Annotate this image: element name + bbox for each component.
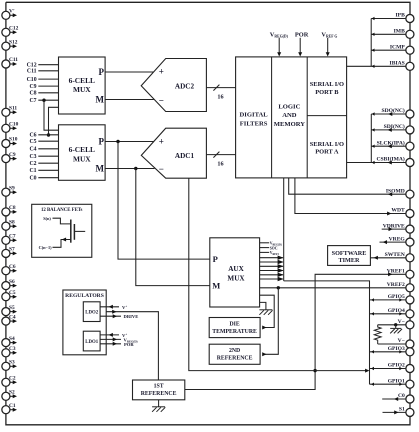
- svg-text:SWTEN: SWTEN: [385, 252, 405, 258]
- pin ISOMD (right terminal): [386, 188, 414, 198]
- wire SWTEN row: [370, 256, 406, 260]
- svg-text:FILTERS: FILTERS: [240, 121, 268, 128]
- junction dot node VREF2: [277, 286, 280, 289]
- svg-text:C1: C1: [30, 168, 37, 174]
- pin C4 (left terminal): [2, 314, 17, 325]
- svg-text:C4: C4: [30, 147, 37, 153]
- wire 2ND REFERENCE riser: [262, 288, 278, 357]
- svg-text:AND: AND: [282, 112, 297, 119]
- svg-text:P: P: [213, 254, 218, 264]
- wire GPIO2 row (bidirectional): [370, 367, 407, 370]
- svg-text:C0: C0: [30, 176, 37, 182]
- svg-text:P: P: [99, 137, 105, 147]
- mux2 input wire C6: [30, 133, 59, 139]
- block SOFTWARE TIMER: [328, 246, 371, 266]
- LDO1 V+ input row: [100, 332, 127, 338]
- svg-text:DIGITAL: DIGITAL: [240, 111, 269, 118]
- svg-text:POR: POR: [295, 31, 309, 38]
- svg-text:C10: C10: [9, 122, 19, 128]
- wire MUX2 P to ADC1 +: [105, 141, 154, 143]
- pin VDRIVE (right terminal): [383, 223, 414, 233]
- pin IMB (right terminal): [394, 29, 414, 39]
- svg-text:C0: C0: [398, 393, 405, 399]
- pin C9 (left terminal): [2, 152, 17, 163]
- pin GPIO1 (right terminal): [388, 378, 414, 388]
- svg-text:C4: C4: [9, 314, 16, 320]
- pin SWTEN (right terminal): [385, 252, 414, 262]
- wire IPB row: [371, 17, 406, 20]
- wire ADC2 output bus (16): [206, 85, 235, 101]
- svg-text:+: +: [159, 137, 164, 147]
- aux mux output V REF2 label row: [260, 251, 280, 256]
- wire CSBI(IMA) row from SERIAL PORT A: [347, 161, 406, 165]
- wire bus vertical (current sense group): [370, 19, 372, 67]
- svg-text:SOFTWARE: SOFTWARE: [332, 250, 367, 257]
- svg-text:M: M: [212, 281, 220, 291]
- aux mux output SOC label row: [260, 246, 278, 250]
- wire GPIO1 row (bidirectional): [370, 383, 407, 386]
- svg-text:+: +: [159, 67, 164, 77]
- pin CSBI(IMA) (right terminal): [377, 156, 414, 167]
- wire ADC1 bottom to GPIO bus: [189, 178, 370, 372]
- block REGULATORS: [63, 290, 106, 355]
- svg-text:C2: C2: [9, 376, 16, 382]
- aux mux output V REG label row: [260, 242, 282, 247]
- svg-text:16: 16: [217, 161, 223, 168]
- svg-text:LDO2: LDO2: [85, 311, 98, 316]
- pin GPIO3 (right terminal): [388, 346, 414, 356]
- wire ICMP row: [371, 49, 406, 52]
- svg-text:C(n−1): C(n−1): [39, 245, 53, 250]
- aux mux fan wire 5 into bus: [260, 273, 284, 277]
- mux2 input wire C2: [30, 161, 59, 167]
- LDO2 DRIVE output row: [100, 314, 138, 319]
- op-amp style block ADC1: [141, 128, 206, 178]
- svg-text:M: M: [96, 95, 105, 105]
- pin GPIO4 (right terminal): [388, 308, 414, 318]
- svg-text:GPIO3: GPIO3: [388, 346, 405, 352]
- svg-text:ADC1: ADC1: [175, 152, 195, 160]
- svg-text:C2: C2: [30, 161, 37, 167]
- svg-text:DIE: DIE: [229, 321, 239, 327]
- pin C3 (left terminal): [2, 346, 17, 357]
- svg-text:S11: S11: [9, 106, 17, 112]
- svg-text:VREG: VREG: [389, 236, 406, 242]
- wire MUX1 P to ADC2 +: [105, 71, 154, 73]
- svg-text:ICMP: ICMP: [390, 44, 405, 50]
- pin SDI(NC) (right terminal): [384, 123, 414, 134]
- ground hatch at V-: [390, 325, 402, 334]
- pin C6 (left terminal): [2, 264, 17, 275]
- svg-text:IBIAS: IBIAS: [390, 61, 405, 67]
- pin S4 (left terminal): [2, 336, 17, 347]
- junction dot on V- row: [394, 323, 397, 326]
- ground hatch below AUX MUX: [259, 302, 272, 314]
- svg-text:S12: S12: [9, 39, 18, 45]
- pin S12 (left terminal): [2, 39, 18, 50]
- svg-text:S3: S3: [9, 360, 15, 366]
- svg-text:C11: C11: [9, 57, 18, 63]
- junction dot on P line (node P): [116, 140, 119, 143]
- mux2 input wire C1: [30, 168, 59, 174]
- wire VDRIVE stub: [382, 227, 406, 231]
- pin GPIO2 (right terminal): [388, 363, 414, 373]
- svg-text:M: M: [96, 164, 105, 174]
- pin WDT (right terminal): [391, 208, 414, 218]
- svg-text:S10: S10: [9, 137, 18, 143]
- pin IPB (right terminal): [395, 13, 413, 23]
- wire MUX1 M to ADC2 -: [105, 99, 154, 101]
- svg-text:PORT A: PORT A: [315, 148, 339, 155]
- svg-text:C3: C3: [30, 154, 37, 160]
- wire WDT from logic box: [295, 178, 406, 216]
- wire ADC1 output bus (16): [206, 152, 235, 168]
- mux1 input wire C7: [30, 98, 59, 104]
- wire bus corner to GPIO bus: [284, 281, 370, 384]
- wire V- top row: [378, 324, 406, 326]
- wire IMB row: [371, 33, 406, 36]
- svg-text:C10: C10: [27, 77, 37, 83]
- svg-text:S6: S6: [9, 279, 15, 285]
- svg-text:C12: C12: [9, 26, 19, 32]
- svg-text:S7: S7: [9, 247, 15, 253]
- svg-text:S1: S1: [399, 407, 405, 413]
- pin VREG (right terminal): [389, 236, 414, 246]
- svg-text:S9: S9: [9, 185, 15, 191]
- svg-text:GPIO2: GPIO2: [388, 363, 405, 369]
- pin VREF2 (right terminal): [387, 282, 414, 292]
- wire C7 to MUX2 top input: [44, 100, 59, 130]
- svg-text:REFERENCE: REFERENCE: [217, 356, 253, 362]
- resistor R1 (V- to V-): [374, 325, 381, 344]
- pin C12 (left terminal): [2, 26, 19, 37]
- top input V REG(D) with arrow: [270, 31, 289, 56]
- svg-text:WDT: WDT: [391, 208, 405, 214]
- pin S8 (left terminal): [2, 219, 17, 230]
- svg-text:C5: C5: [9, 290, 16, 296]
- pin C0 (right terminal): [398, 393, 414, 403]
- wire S1 row: [383, 410, 407, 414]
- wire ADC1 P-line to AUX MUX P input: [118, 142, 210, 260]
- block U3 AUX MUX: [210, 238, 260, 307]
- svg-text:C9: C9: [30, 84, 37, 90]
- svg-text:VREF2: VREF2: [387, 282, 405, 288]
- svg-text:C7: C7: [9, 234, 16, 240]
- svg-text:S4: S4: [9, 336, 15, 342]
- svg-text:DRIVE: DRIVE: [124, 314, 139, 319]
- mux2 input wire C3: [30, 154, 59, 160]
- pin V- (right terminal): [398, 338, 414, 348]
- wire regulator to 1ST REFERENCE: [100, 310, 158, 380]
- svg-text:−: −: [159, 164, 164, 174]
- svg-text:1ST: 1ST: [154, 384, 164, 390]
- svg-text:MUX: MUX: [73, 85, 91, 94]
- svg-text:C12: C12: [27, 63, 37, 69]
- op-amp style block ADC2: [141, 59, 206, 112]
- mux1 input wire C11: [27, 69, 59, 75]
- svg-text:TIMER: TIMER: [339, 257, 361, 264]
- wire GPIO3 row (bidirectional): [370, 350, 407, 353]
- pin S7 (left terminal): [2, 247, 17, 258]
- pin C7 (left terminal): [2, 234, 17, 245]
- svg-text:IPB: IPB: [395, 13, 405, 19]
- svg-text:V−: V−: [398, 338, 405, 344]
- wire DIE TEMPERATURE riser: [260, 295, 275, 329]
- block DIE TEMPERATURE: [209, 318, 260, 338]
- svg-text:GPIO4: GPIO4: [388, 308, 405, 314]
- wire ISOMD from logic box: [289, 178, 406, 196]
- wire VREG stub: [380, 240, 407, 244]
- mux1 input wire C12: [27, 63, 59, 69]
- aux mux fan wire 4 into bus: [260, 268, 284, 272]
- pin ICMP (right terminal): [390, 44, 414, 54]
- svg-text:IMB: IMB: [394, 29, 405, 35]
- svg-text:16: 16: [217, 94, 223, 101]
- aux mux fan wire 6 into bus: [260, 277, 284, 281]
- svg-text:C7: C7: [30, 98, 37, 104]
- svg-text:PORT B: PORT B: [315, 89, 339, 96]
- pin SDO(NC) (right terminal): [381, 107, 413, 118]
- wire C6 to MUX1 bottom input: [49, 107, 59, 135]
- aux mux fan wire 3 into bus: [260, 264, 284, 268]
- wire VREF2 row from AUX MUX: [260, 287, 406, 289]
- pin S3 (left terminal): [2, 360, 17, 371]
- transistor Q1 balance FET in block 12 BALANCE FETs: [32, 204, 92, 257]
- pin S11 (left terminal): [2, 106, 18, 117]
- block 2ND REFERENCE: [209, 344, 260, 364]
- pin C10 (left terminal): [2, 122, 19, 133]
- svg-text:S5: S5: [9, 305, 15, 311]
- svg-text:S(n): S(n): [43, 216, 51, 221]
- svg-text:V−: V−: [398, 319, 405, 325]
- pin C11 (left terminal): [2, 57, 18, 68]
- wire MUX2 M to ADC1 -: [105, 168, 154, 170]
- pin IBIAS (right terminal): [390, 61, 414, 71]
- svg-text:SDO(NC): SDO(NC): [381, 107, 404, 114]
- top input POR with arrow: [295, 31, 309, 56]
- pin S2 (left terminal): [2, 390, 17, 401]
- junction dot node C7: [42, 99, 45, 102]
- pin V- (right terminal): [398, 319, 414, 329]
- svg-text:AUX: AUX: [228, 265, 244, 273]
- svg-text:S8: S8: [9, 219, 15, 225]
- block U1 6-CELL MUX (upper): [59, 57, 106, 114]
- pin S1 (right terminal): [399, 407, 414, 417]
- junction dot on GPIO2 feed line: [313, 369, 316, 372]
- svg-text:SOC: SOC: [270, 246, 278, 250]
- mux2 input wire C5: [30, 139, 59, 145]
- pin V+ (left terminal): [2, 8, 17, 19]
- pin GPIO5 (right terminal): [388, 294, 414, 304]
- svg-text:VDRIVE: VDRIVE: [383, 223, 405, 229]
- svg-text:GPIO5: GPIO5: [388, 294, 405, 300]
- wire SLCK(IPA) row: [371, 144, 406, 148]
- svg-text:C6: C6: [9, 264, 16, 270]
- wire GPIO4 row (bidirectional): [370, 312, 407, 315]
- svg-text:ADC2: ADC2: [175, 82, 195, 90]
- svg-text:P: P: [99, 67, 105, 77]
- pin S10 (left terminal): [2, 137, 18, 148]
- block U2 6-CELL MUX (lower): [59, 125, 106, 181]
- svg-text:REFERENCE: REFERENCE: [141, 391, 177, 397]
- wire GPIO5 row (bidirectional): [370, 298, 407, 301]
- svg-text:C6: C6: [30, 133, 37, 139]
- wire IBIAS row from SERIAL PORT B: [347, 65, 406, 68]
- mux2 input wire C0: [30, 176, 59, 182]
- svg-text:2ND: 2ND: [229, 348, 240, 354]
- svg-text:C3: C3: [9, 346, 16, 352]
- block 1ST REFERENCE: [133, 380, 185, 400]
- svg-text:12 BALANCE FETs: 12 BALANCE FETs: [41, 208, 83, 213]
- wire 1ST REFERENCE output to VREF1: [185, 272, 406, 389]
- aux mux fan wire 2 into bus: [260, 260, 284, 264]
- svg-text:6-CELL: 6-CELL: [69, 76, 95, 85]
- wire SDI(NC) row: [371, 128, 406, 132]
- aux mux fan wire 1 into bus: [260, 256, 284, 260]
- svg-text:SDI(NC): SDI(NC): [384, 123, 405, 130]
- LDO1 POR output row: [100, 342, 134, 347]
- svg-text:SERIAL I/O: SERIAL I/O: [310, 141, 344, 148]
- mux1 input wire C10: [27, 77, 59, 83]
- pin S9 (left terminal): [2, 185, 17, 196]
- svg-text:REGULATORS: REGULATORS: [65, 293, 104, 299]
- wire SDO(NC) row: [371, 112, 406, 116]
- svg-text:C8: C8: [30, 91, 37, 97]
- block LDO1: [83, 331, 100, 351]
- mux2 input wire C4: [30, 147, 59, 153]
- pin S6 (left terminal): [2, 279, 17, 290]
- svg-text:TEMPERATURE: TEMPERATURE: [212, 329, 257, 335]
- svg-text:−: −: [159, 96, 164, 106]
- mux1 input wire C9: [30, 84, 59, 90]
- ground hatch below 1ST REFERENCE: [152, 400, 165, 412]
- block LDO2: [83, 302, 100, 322]
- junction dot node C6: [47, 133, 50, 136]
- pin C5 (left terminal): [2, 290, 17, 301]
- LDO1 V REG output row: [100, 337, 137, 343]
- svg-text:C5: C5: [30, 139, 37, 145]
- svg-text:C9: C9: [9, 152, 16, 158]
- pin S5 (left terminal): [2, 305, 17, 316]
- wire vertical bus from DIGITAL FILTERS to aux fan: [283, 178, 285, 281]
- pin C2 (left terminal): [2, 376, 17, 387]
- svg-text:C11: C11: [27, 69, 37, 75]
- svg-text:C8: C8: [9, 205, 16, 211]
- svg-text:LOGIC: LOGIC: [278, 103, 300, 110]
- svg-text:6-CELL: 6-CELL: [69, 145, 95, 154]
- svg-text:C1: C1: [9, 403, 16, 409]
- pin C8 (left terminal): [2, 205, 17, 216]
- wire V- bottom row: [378, 343, 406, 345]
- svg-text:MUX: MUX: [227, 275, 245, 283]
- mux1 input wire C8: [30, 91, 59, 97]
- svg-text:SERIAL I/O: SERIAL I/O: [310, 81, 344, 88]
- svg-text:MUX: MUX: [73, 154, 91, 163]
- svg-text:MEMORY: MEMORY: [274, 121, 306, 128]
- svg-text:GPIO1: GPIO1: [388, 378, 405, 384]
- wire C0 row: [382, 397, 406, 401]
- junction dot on M line (node M): [134, 167, 137, 170]
- svg-text:POR: POR: [124, 342, 134, 347]
- top input V REG with arrow: [321, 31, 337, 56]
- LDO2 V+ input row: [100, 304, 127, 310]
- svg-text:LDO1: LDO1: [85, 340, 98, 345]
- pin SLCK(IPA) (right terminal): [377, 139, 414, 150]
- wire ADC1 M-line to AUX MUX M input: [136, 169, 210, 286]
- svg-text:S2: S2: [9, 390, 15, 396]
- block DIGITAL FILTERS / LOGIC AND MEMORY / SERIAL I/O: [236, 57, 347, 178]
- wire bus vertical (serial port A group): [370, 114, 372, 163]
- pin C1 (left terminal): [2, 403, 17, 414]
- svg-text:ISOMD: ISOMD: [386, 188, 405, 194]
- pin VREF1 (right terminal): [387, 269, 414, 279]
